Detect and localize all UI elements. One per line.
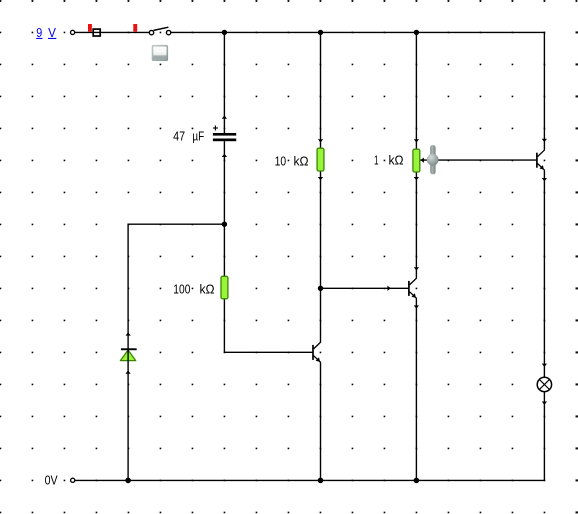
svg-text:V: V bbox=[48, 25, 56, 40]
svg-text:10: 10 bbox=[275, 153, 287, 168]
svg-text:µF: µF bbox=[192, 129, 204, 144]
svg-text:kΩ: kΩ bbox=[294, 153, 309, 168]
svg-text:1: 1 bbox=[374, 153, 379, 168]
svg-text:0V: 0V bbox=[45, 473, 58, 488]
svg-text:47: 47 bbox=[173, 129, 185, 144]
svg-text:kΩ: kΩ bbox=[200, 282, 215, 297]
svg-text:9: 9 bbox=[36, 25, 42, 40]
svg-text:kΩ: kΩ bbox=[389, 153, 404, 168]
svg-text:100: 100 bbox=[173, 282, 190, 297]
